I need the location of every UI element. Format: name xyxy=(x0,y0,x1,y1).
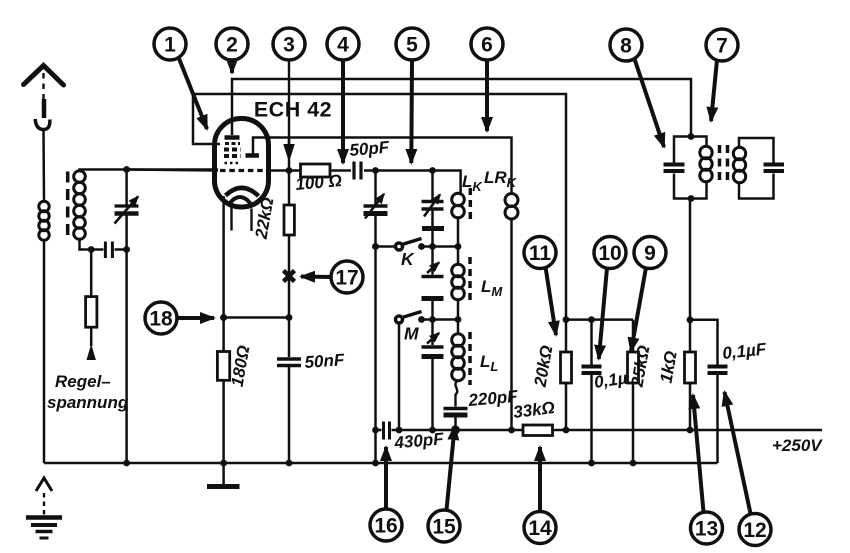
node osc column K row xyxy=(372,243,379,250)
IF transformer secondary xyxy=(739,138,784,199)
resistor Regelspannung xyxy=(86,250,97,347)
variable capacitor oscillator xyxy=(364,171,388,464)
tube ECH42 envelope U1 xyxy=(215,119,269,208)
node cathode row right xyxy=(286,314,293,321)
node 20k bus xyxy=(563,427,570,434)
node cathode bus xyxy=(220,460,227,467)
svg-text:14: 14 xyxy=(528,517,552,540)
svg-text:1: 1 xyxy=(164,34,176,57)
svg-text:12: 12 xyxy=(743,519,766,542)
callout 7 xyxy=(706,29,738,121)
callout 6 xyxy=(471,28,503,131)
capacitor 50nF cathode bypass xyxy=(277,318,301,464)
node screen top xyxy=(563,316,570,323)
capacitor 0.1uF screen xyxy=(582,320,602,463)
wire antenna lead down xyxy=(42,130,45,202)
switch K xyxy=(376,239,459,251)
callout 3 xyxy=(273,28,305,162)
chassis arrow bottom left xyxy=(36,478,52,491)
node K row left xyxy=(372,243,379,250)
wire screen row xyxy=(566,318,633,321)
node bus A switch M xyxy=(396,427,403,434)
svg-text:50pF: 50pF xyxy=(349,138,391,160)
svg-text:15: 15 xyxy=(432,516,456,539)
coil Ll xyxy=(452,334,465,381)
wire Lk bottom xyxy=(457,218,460,247)
callout 18 xyxy=(145,302,214,334)
svg-text:50nF: 50nF xyxy=(304,350,346,372)
node grid wire 22k xyxy=(286,167,293,174)
svg-text:spannung: spannung xyxy=(47,393,129,412)
chassis ground bar xyxy=(207,484,240,489)
resistor 25kOhm xyxy=(628,320,639,463)
svg-text:10: 10 xyxy=(598,242,621,265)
wire grid line left xyxy=(128,170,218,171)
svg-text:100 Ω: 100 Ω xyxy=(295,171,343,194)
callout 12 xyxy=(725,392,772,546)
coil Lk xyxy=(452,193,465,218)
resistor 22kOhm grid leak xyxy=(284,171,294,318)
wire cathode lead xyxy=(222,196,225,318)
capacitor 220pF xyxy=(444,409,468,431)
trimmer capacitor M lower xyxy=(422,320,444,431)
grid g1 dashed inside tube xyxy=(220,169,268,172)
callout 8 xyxy=(610,29,664,147)
callout 4 xyxy=(327,28,359,163)
osc line g triode to LRk xyxy=(289,138,512,194)
callout 16 xyxy=(370,447,402,541)
svg-text:17: 17 xyxy=(335,267,358,290)
arrow Regelspannung terminal xyxy=(87,344,96,360)
node bus B osc xyxy=(372,460,379,467)
svg-text:7: 7 xyxy=(716,35,728,58)
wire grid line right xyxy=(266,169,301,172)
wire LRk down to bus xyxy=(510,219,513,430)
callout 2 xyxy=(216,28,248,73)
callout 15 xyxy=(428,426,460,542)
callout 13 xyxy=(691,395,723,544)
node antenna tank bottom xyxy=(123,246,130,253)
wire anode lead xyxy=(232,79,691,137)
node bus A LRk xyxy=(508,427,515,434)
svg-text:3: 3 xyxy=(283,34,295,57)
bus +250V xyxy=(376,422,823,440)
earth ground symbol xyxy=(26,518,62,539)
callout 11 xyxy=(524,237,556,336)
input transformer secondary coil xyxy=(74,171,86,240)
svg-text:8: 8 xyxy=(620,35,632,58)
callout 14 xyxy=(524,447,556,544)
resistor 100 Ohm xyxy=(301,164,352,177)
resistor 20kOhm xyxy=(561,320,572,430)
svg-text:9: 9 xyxy=(644,242,656,265)
capacitor 50pF xyxy=(354,162,461,194)
svg-text:6: 6 xyxy=(481,34,493,57)
chassis ground stub xyxy=(222,463,225,484)
tube anode plate xyxy=(225,135,240,140)
svg-text:K: K xyxy=(401,249,415,269)
node M row contact xyxy=(418,316,425,323)
resistor 180 Ohm cathode xyxy=(217,318,229,464)
antenna coil primary xyxy=(39,201,49,240)
node antenna tank top xyxy=(123,166,130,173)
node K row coil xyxy=(455,243,462,250)
wire screen feed xyxy=(193,94,566,320)
svg-text:16: 16 xyxy=(374,515,397,538)
callout 10 xyxy=(594,237,626,360)
callout 1 xyxy=(154,28,207,129)
wire Lm leads xyxy=(457,247,460,320)
variable capacitor antenna tuning xyxy=(115,170,139,464)
wire IF primary down xyxy=(689,199,692,320)
dashed core Lk xyxy=(469,188,473,221)
svg-text:+250V: +250V xyxy=(772,436,823,455)
switch M xyxy=(396,312,459,431)
dashed lead to earth xyxy=(43,493,45,515)
node IF primary top xyxy=(688,133,695,140)
capacitor 0.1uF anode xyxy=(690,320,728,463)
svg-text:18: 18 xyxy=(149,308,173,331)
node 1k bus xyxy=(687,427,694,434)
coil Lm xyxy=(452,264,465,300)
tube g3 bar xyxy=(246,153,260,158)
transformer core dashed xyxy=(66,172,70,242)
wire osc grid junction xyxy=(288,138,291,171)
wire antenna to ground bus xyxy=(43,240,46,463)
svg-text:ECH 42: ECH 42 xyxy=(254,98,332,122)
trimmer capacitor M upper xyxy=(422,247,444,320)
callout 9 xyxy=(631,237,666,352)
tube heater stubs xyxy=(232,208,252,232)
resistor 1kOhm xyxy=(685,320,696,430)
callout 5 xyxy=(396,28,428,163)
node bus A left xyxy=(372,427,379,434)
wire Ll hook to 220pF xyxy=(455,381,458,407)
node K trimmer top xyxy=(429,167,436,174)
svg-text:11: 11 xyxy=(529,242,552,265)
svg-text:M: M xyxy=(404,324,419,344)
wire cathode row xyxy=(224,316,289,319)
IF primary coil xyxy=(700,146,712,181)
svg-text:5: 5 xyxy=(406,34,418,57)
callout 17 xyxy=(301,261,363,293)
tube grid rows xyxy=(224,144,241,164)
node anode decoupling xyxy=(687,316,694,323)
tube cathode arc xyxy=(226,188,259,196)
dashed core Ll xyxy=(468,332,472,385)
node screen cap top xyxy=(588,316,595,323)
wire Ll top xyxy=(457,320,460,335)
bus ground xyxy=(44,462,718,465)
svg-text:13: 13 xyxy=(695,518,718,541)
X mark point 17 xyxy=(284,271,295,282)
svg-text:4: 4 xyxy=(337,34,349,57)
IF transformer core dashed xyxy=(720,145,728,185)
wire secondary bottom xyxy=(80,239,104,250)
node M row coil xyxy=(455,316,462,323)
IF transformer primary xyxy=(664,137,707,199)
node bus A trimmer M xyxy=(429,427,436,434)
node screen cap bus xyxy=(588,460,595,467)
node antenna cap to bus xyxy=(123,460,130,467)
wire secondary top to grid line xyxy=(80,170,219,172)
coil LRk choke xyxy=(505,194,518,220)
antenna symbol xyxy=(24,66,64,130)
tube heater arc xyxy=(230,197,251,204)
trimmer capacitor K xyxy=(422,171,445,247)
node K row contact xyxy=(418,243,425,250)
node 220pF bus blob xyxy=(451,426,460,435)
node K row trimmer xyxy=(429,243,436,250)
node M row trimmer xyxy=(429,316,436,323)
node 50nF bus xyxy=(286,460,293,467)
IF secondary coil xyxy=(733,147,745,182)
svg-text:2: 2 xyxy=(226,34,238,57)
node Regelspannung tap xyxy=(88,246,95,253)
node 25k bus xyxy=(630,460,637,467)
node 18 junction xyxy=(220,314,227,321)
wire g3 lead xyxy=(253,138,289,154)
node osc tank top xyxy=(372,167,379,174)
dashed core Lm xyxy=(468,257,472,304)
svg-text:Regel–: Regel– xyxy=(55,372,111,391)
series coupling capacitor xyxy=(105,242,126,259)
node IF primary bottom xyxy=(688,195,695,202)
